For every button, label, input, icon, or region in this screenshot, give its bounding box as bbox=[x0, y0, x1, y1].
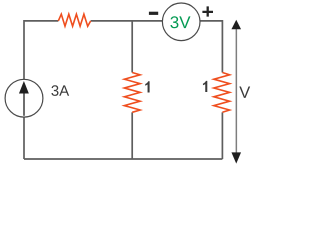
label V bbox=[239, 87, 250, 98]
plus sign bbox=[202, 6, 213, 16]
wire bottom bbox=[24, 158, 222, 160]
current source circle bbox=[5, 79, 43, 117]
resistor right vertical bbox=[214, 73, 230, 113]
current source arrow shaft bbox=[23, 93, 25, 116]
voltage source label 3V bbox=[170, 16, 190, 28]
wire right branch lower bbox=[221, 112, 223, 159]
resistor middle vertical bbox=[124, 73, 140, 113]
wire top between resistor and voltage source bbox=[91, 20, 163, 22]
wire left vertical upper (current source to top-left corner) bbox=[24, 21, 58, 80]
voltage source circle bbox=[162, 3, 200, 41]
minus sign bbox=[149, 12, 158, 15]
label 3A bbox=[51, 85, 69, 96]
wire left vertical lower (current source to bottom-left corner) bbox=[23, 117, 25, 159]
wire top-right (voltage source to top-right corner) bbox=[200, 21, 222, 73]
voltage arrow head down bbox=[231, 152, 241, 163]
label 1 right resistor bbox=[203, 81, 207, 92]
current source arrowhead bbox=[19, 81, 29, 93]
voltage arrow head up bbox=[231, 20, 241, 30]
wire middle branch upper bbox=[131, 21, 133, 73]
wire middle branch lower bbox=[131, 112, 133, 159]
resistor top horizontal bbox=[58, 14, 90, 26]
voltage arrow shaft bbox=[235, 22, 237, 161]
label 1 middle resistor bbox=[145, 81, 149, 92]
